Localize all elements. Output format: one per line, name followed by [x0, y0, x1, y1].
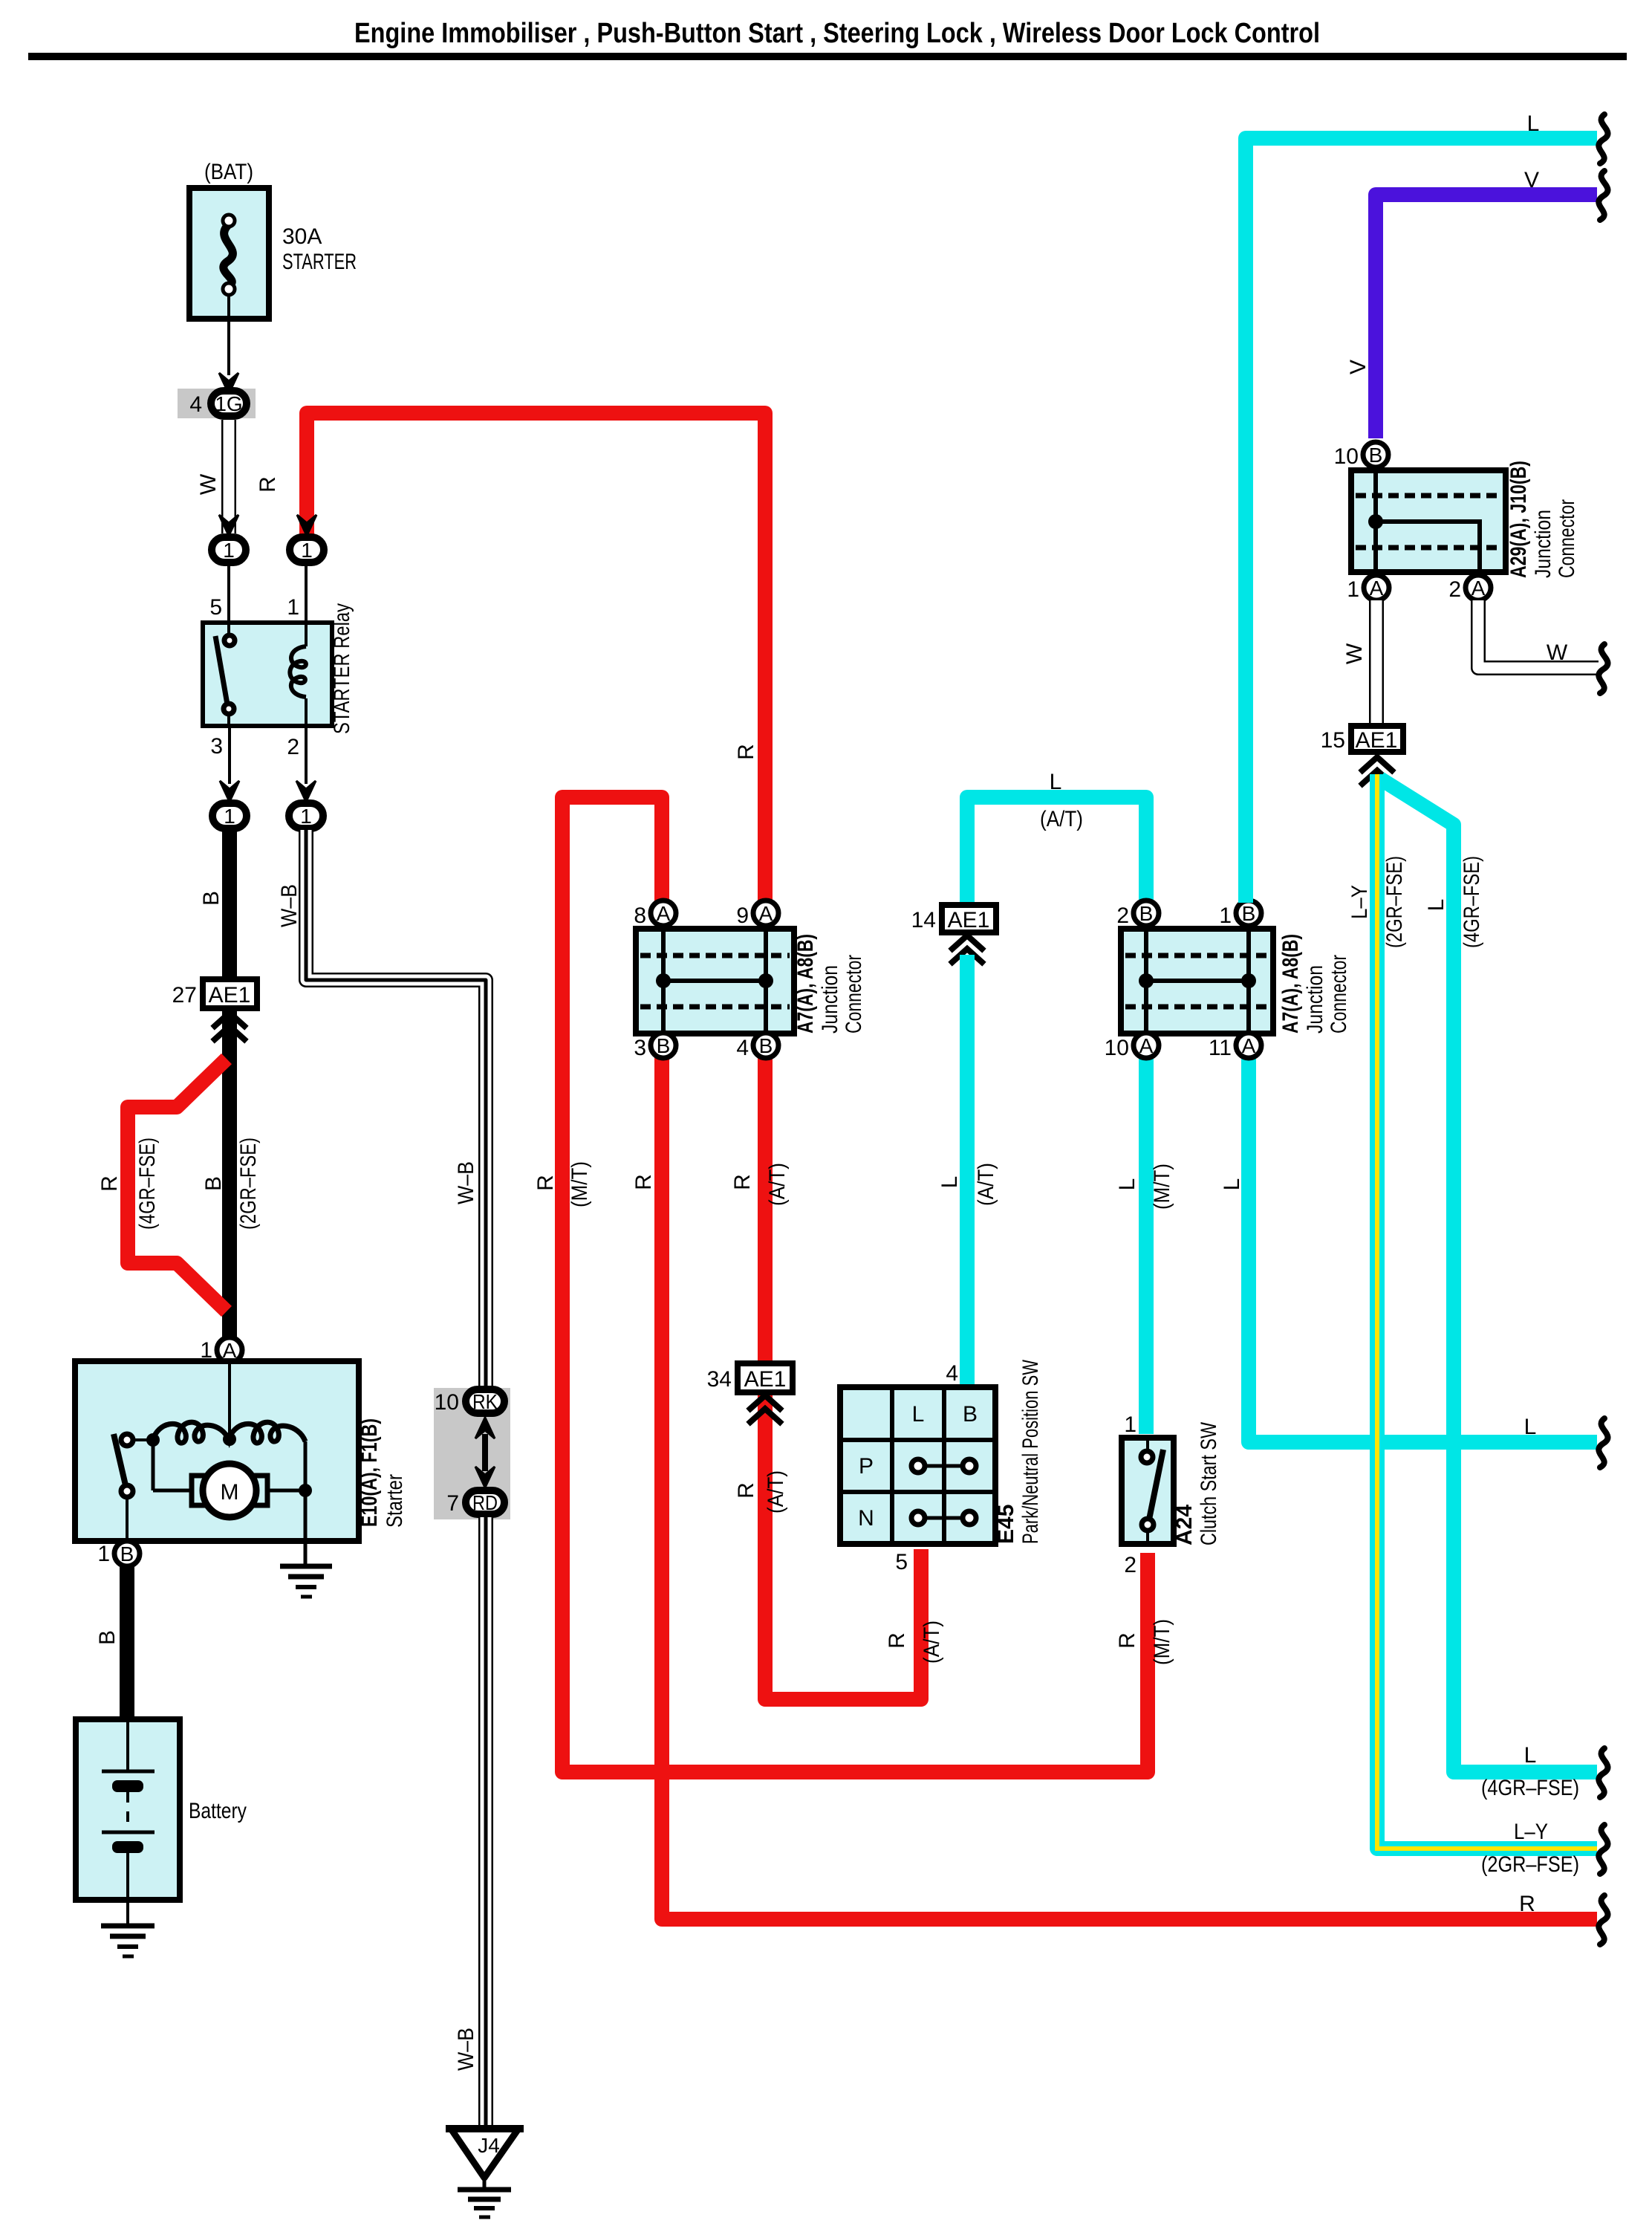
- svg-text:3: 3: [634, 1036, 646, 1060]
- svg-text:1: 1: [224, 805, 235, 828]
- wire B black relay to starter: [222, 830, 237, 1348]
- wire W-B relay pin2 to RK: [306, 830, 486, 1388]
- svg-text:5: 5: [209, 595, 222, 620]
- E45 cell labels: [858, 1402, 978, 1531]
- wire W A29 pin 2A to right break: [1478, 600, 1599, 668]
- label E10(A), F1(B) Starter: [357, 1418, 407, 1528]
- starter motor M: [153, 1440, 312, 1541]
- svg-text:1: 1: [1219, 903, 1232, 928]
- svg-text:RK: RK: [472, 1390, 498, 1413]
- wire RK to RD: [482, 1434, 488, 1471]
- svg-text:2: 2: [1448, 577, 1461, 602]
- svg-text:2: 2: [1116, 903, 1129, 928]
- svg-text:A7(A), A8(B): A7(A), A8(B): [793, 934, 818, 1034]
- svg-text:30A: 30A: [282, 224, 322, 249]
- wire L M/T: junction pin 10A to clutch SW pin 1: [1139, 1042, 1154, 1434]
- pin A circle starter: [217, 1337, 242, 1363]
- svg-text:10: 10: [1334, 444, 1359, 469]
- wire L-Y 2GR-FSE: 15 AE1 down to right break: [1377, 774, 1597, 1849]
- label R (4GR-FSE): [97, 1138, 160, 1230]
- svg-text:R: R: [1519, 1892, 1535, 1916]
- wire oval to relay pin1: [305, 564, 308, 623]
- break symbol L mid right: [1599, 1418, 1607, 1467]
- arrow into oval row2 right: [296, 781, 316, 802]
- svg-text:R: R: [734, 1482, 758, 1499]
- svg-text:(M/T): (M/T): [1150, 1164, 1174, 1210]
- svg-text:B: B: [120, 1542, 134, 1566]
- wire L A/T: 14 AE1 up over to junction pin 2B: [967, 797, 1146, 908]
- svg-text:(M/T): (M/T): [568, 1161, 592, 1207]
- svg-text:B: B: [963, 1402, 978, 1427]
- svg-text:4: 4: [736, 1036, 749, 1060]
- svg-text:2: 2: [1124, 1553, 1136, 1577]
- svg-text:P: P: [859, 1454, 874, 1479]
- connector 1G oval: [211, 391, 247, 416]
- svg-text:A: A: [759, 902, 773, 925]
- svg-text:1: 1: [97, 1542, 110, 1566]
- svg-text:RD: RD: [472, 1491, 498, 1514]
- connector 15 AE1: [1351, 726, 1403, 753]
- svg-text:W: W: [1547, 640, 1568, 665]
- svg-text:L: L: [937, 1176, 962, 1189]
- svg-text:AE1: AE1: [948, 908, 990, 932]
- svg-text:(2GR–FSE): (2GR–FSE): [1481, 1852, 1579, 1877]
- shield chevrons 14 AE1: [952, 935, 982, 962]
- label R (A/T) at E45 pin 5: [885, 1620, 944, 1664]
- svg-text:Clutch Start SW: Clutch Start SW: [1197, 1421, 1221, 1545]
- wire L A/T: 14 AE1 down to E45 pin 4: [960, 955, 975, 1391]
- svg-text:27: 27: [172, 983, 197, 1008]
- svg-text:M: M: [221, 1480, 239, 1505]
- break symbol L-Y bottom: [1599, 1825, 1607, 1874]
- connector oval 1 (row2 right): [289, 803, 323, 828]
- connector oval 1 (row1 right): [290, 537, 324, 562]
- svg-text:L: L: [1527, 111, 1540, 136]
- svg-text:11: 11: [1209, 1036, 1232, 1060]
- label L (4GR-FSE) bottom right: [1481, 1743, 1579, 1800]
- pin 11 A circle: [1236, 1033, 1261, 1058]
- wire R: junction pin 3B to right break: [662, 1042, 1597, 1919]
- label R (M/T) left: [533, 1161, 592, 1207]
- break symbol W right: [1599, 644, 1607, 693]
- svg-text:W: W: [1342, 643, 1367, 664]
- label A29(A), J10(B) Junction Connector: [1506, 461, 1579, 578]
- connector 34 AE1: [738, 1363, 793, 1392]
- svg-text:A: A: [1370, 577, 1384, 600]
- label L-Y (2GR-FSE) bottom right: [1481, 1820, 1579, 1877]
- svg-text:1: 1: [1347, 577, 1359, 602]
- svg-text:1: 1: [300, 805, 312, 828]
- svg-text:A: A: [1471, 577, 1486, 600]
- svg-text:4: 4: [946, 1361, 958, 1386]
- svg-text:R: R: [734, 744, 758, 760]
- E45 P row contacts: [911, 1459, 976, 1473]
- svg-text:R: R: [730, 1174, 755, 1190]
- svg-text:(A/T): (A/T): [764, 1470, 788, 1513]
- fuse 30A STARTER box: [189, 188, 269, 319]
- svg-text:15: 15: [1321, 728, 1345, 753]
- label L (A/T): [937, 1163, 998, 1206]
- svg-text:1: 1: [223, 539, 235, 562]
- wire fuse to 1G: [227, 295, 230, 375]
- connector 27 AE1: [203, 979, 257, 1008]
- svg-text:(A/T): (A/T): [765, 1163, 790, 1206]
- label B (2GR-FSE): [201, 1138, 261, 1230]
- svg-text:1: 1: [1124, 1412, 1136, 1437]
- pin 2 A circle A29: [1466, 575, 1491, 600]
- svg-text:B: B: [1139, 902, 1154, 925]
- wire V: right break to A29 pin 10B: [1376, 195, 1597, 438]
- svg-text:Starter: Starter: [383, 1474, 407, 1528]
- svg-text:(4GR–FSE): (4GR–FSE): [1481, 1776, 1579, 1800]
- A24 Clutch Start SW box: [1122, 1438, 1174, 1544]
- svg-text:Connector: Connector: [1555, 499, 1579, 578]
- arrow up into RK: [475, 1418, 495, 1438]
- svg-text:L: L: [1524, 1415, 1537, 1439]
- E45 N row contacts: [911, 1511, 976, 1525]
- svg-text:Connector: Connector: [1327, 955, 1351, 1034]
- wire L top: right break to junction pin 1B: [1246, 138, 1597, 903]
- pin 10 B circle A29: [1363, 442, 1388, 467]
- break symbol L 4GR bottom: [1599, 1748, 1607, 1797]
- svg-text:L–Y: L–Y: [1347, 885, 1372, 919]
- wire W 1G to oval1: [221, 420, 236, 533]
- svg-text:V: V: [1524, 168, 1539, 192]
- svg-text:V: V: [1346, 360, 1370, 374]
- svg-text:L: L: [1424, 899, 1448, 912]
- label A7(A), A8(B) Junction Connector left: [793, 934, 866, 1034]
- shield chevrons 15 AE1: [1362, 757, 1392, 784]
- svg-text:N: N: [858, 1506, 874, 1531]
- connector oval 1 (row2 left): [212, 803, 247, 828]
- label R (A/T) lower: [734, 1470, 788, 1513]
- wire relay pin2 down: [305, 726, 308, 784]
- svg-text:R: R: [256, 476, 280, 493]
- svg-text:AE1: AE1: [744, 1367, 787, 1392]
- connector oval 1 (row1 left): [212, 537, 246, 562]
- svg-text:B: B: [1369, 444, 1383, 467]
- connector 14 AE1: [942, 905, 996, 932]
- svg-text:(A/T): (A/T): [974, 1163, 998, 1206]
- starter ground: [280, 1566, 332, 1597]
- svg-text:B: B: [1242, 902, 1256, 925]
- svg-text:R: R: [885, 1632, 909, 1649]
- svg-text:B: B: [657, 1034, 671, 1057]
- svg-text:Junction: Junction: [1531, 510, 1555, 578]
- battery cells symbol: [102, 1721, 155, 1900]
- label L (4GR-FSE) rotated: [1424, 856, 1484, 948]
- label L (M/T): [1115, 1164, 1174, 1210]
- svg-text:L: L: [1115, 1178, 1139, 1191]
- svg-text:8: 8: [634, 903, 646, 928]
- wire R M/T: junction pin 8A to clutch SW pin 2: [562, 797, 1148, 1772]
- svg-text:4: 4: [189, 392, 202, 417]
- pin 1 B circle: [1236, 901, 1261, 926]
- svg-text:3: 3: [210, 734, 223, 759]
- junction connector A7(A) A8(B) right box: [1121, 929, 1273, 1034]
- shield chevrons 34 AE1: [750, 1395, 780, 1422]
- label R (M/T) at clutch SW pin 2: [1115, 1619, 1174, 1665]
- svg-text:Park/Neutral Position SW: Park/Neutral Position SW: [1018, 1359, 1043, 1544]
- svg-text:R: R: [533, 1175, 558, 1191]
- battery ground wire: [126, 1900, 129, 1925]
- svg-text:E10(A), F1(B): E10(A), F1(B): [357, 1418, 382, 1527]
- pin 8 A circle: [651, 901, 676, 926]
- shield chevrons 27 AE1: [215, 1013, 244, 1039]
- svg-text:B: B: [199, 891, 224, 906]
- relay switch: [215, 623, 235, 726]
- svg-text:R: R: [97, 1175, 122, 1192]
- svg-text:AE1: AE1: [209, 983, 251, 1008]
- svg-text:7: 7: [446, 1491, 459, 1516]
- wire R main top elbow: [307, 413, 765, 903]
- relay coil: [290, 623, 306, 726]
- label A24 Clutch Start SW: [1172, 1421, 1221, 1545]
- pin 2 B circle: [1134, 901, 1159, 926]
- E45 Park/Neutral Position SW box: [840, 1387, 995, 1544]
- svg-text:Junction: Junction: [1303, 965, 1327, 1034]
- starter field coil: [146, 1422, 305, 1490]
- label R (A/T) upper: [730, 1163, 790, 1206]
- starter switch: [114, 1434, 153, 1541]
- svg-text:10: 10: [1105, 1036, 1129, 1060]
- connector RD oval: [466, 1490, 504, 1514]
- title underline: [28, 53, 1627, 60]
- svg-text:A24: A24: [1172, 1505, 1197, 1545]
- svg-text:2: 2: [287, 735, 299, 759]
- svg-text:L: L: [1524, 1743, 1537, 1768]
- wire oval to relay pin5: [227, 564, 230, 623]
- STARTER Relay box: [203, 623, 332, 726]
- wire L 4GR-FSE: 15 AE1 down to right break: [1380, 779, 1597, 1772]
- fuse element symbol: [223, 215, 235, 295]
- wire R 4GR-FSE loop: [128, 1059, 227, 1311]
- pin 1 A circle A29: [1364, 575, 1389, 600]
- label 30A STARTER: [282, 224, 357, 274]
- wire W A29 pin 1A to 15 AE1: [1369, 600, 1384, 726]
- svg-text:Engine Immobiliser , Push-Butt: Engine Immobiliser , Push-Button Start ,…: [354, 18, 1320, 49]
- pin 3 B circle: [651, 1033, 676, 1058]
- junction connector A7(A) A8(B) left box: [636, 929, 794, 1034]
- svg-text:(A/T): (A/T): [1040, 807, 1083, 831]
- starter E10(A) F1(B) box: [75, 1361, 359, 1541]
- battery box: [76, 1719, 180, 1900]
- svg-text:(4GR–FSE): (4GR–FSE): [135, 1138, 160, 1230]
- svg-text:10: 10: [435, 1390, 459, 1415]
- pin 10 A circle: [1134, 1033, 1159, 1058]
- starter internal wire from pin A: [228, 1363, 231, 1439]
- svg-text:W–B: W–B: [454, 2028, 478, 2071]
- A24 switch: [1141, 1439, 1163, 1544]
- svg-text:L: L: [912, 1402, 925, 1427]
- battery ground: [101, 1926, 155, 1956]
- wire B black starter to battery: [120, 1566, 134, 1721]
- svg-text:E45: E45: [994, 1505, 1018, 1544]
- svg-text:Battery: Battery: [189, 1799, 247, 1823]
- break symbol V top: [1599, 171, 1607, 220]
- label L-Y (2GR-FSE) rotated: [1347, 856, 1407, 948]
- wire R A/T: junction pin 4B to E45 pin 5: [765, 1042, 921, 1699]
- ground J4 triangle: [446, 2129, 524, 2178]
- svg-text:A7(A), A8(B): A7(A), A8(B): [1278, 934, 1303, 1034]
- svg-text:J4: J4: [478, 2134, 500, 2157]
- arrow into oval row1 left: [219, 515, 238, 536]
- svg-text:(BAT): (BAT): [204, 160, 253, 184]
- arrow into 1G: [219, 373, 238, 394]
- svg-text:B: B: [201, 1176, 226, 1191]
- wire W-B RD to J4: [478, 1517, 493, 2128]
- J4 ground: [458, 2178, 511, 2217]
- svg-text:1: 1: [301, 539, 313, 562]
- arrow into oval row2 left: [220, 781, 239, 802]
- svg-text:W: W: [196, 473, 221, 495]
- svg-text:A29(A), J10(B): A29(A), J10(B): [1506, 461, 1531, 578]
- svg-text:A: A: [1242, 1034, 1256, 1057]
- junction connector A29(A) J10(B) box: [1351, 470, 1506, 572]
- pin 4 B circle: [753, 1033, 778, 1058]
- wire relay pin3 down: [228, 726, 231, 784]
- svg-text:R: R: [1115, 1632, 1139, 1649]
- break symbol L top: [1599, 114, 1607, 163]
- svg-text:L: L: [1050, 770, 1062, 794]
- svg-text:5: 5: [895, 1550, 908, 1574]
- svg-text:L: L: [1220, 1178, 1244, 1191]
- svg-text:(A/T): (A/T): [920, 1620, 944, 1664]
- svg-text:(4GR–FSE): (4GR–FSE): [1460, 856, 1484, 948]
- svg-text:(M/T): (M/T): [1150, 1619, 1174, 1665]
- svg-text:A: A: [657, 902, 671, 925]
- svg-text:STARTER: STARTER: [282, 250, 357, 274]
- svg-text:A: A: [1139, 1034, 1154, 1057]
- svg-text:B: B: [95, 1630, 120, 1645]
- connector grey band 4 1G: [178, 389, 256, 418]
- svg-text:STARTER Relay: STARTER Relay: [330, 603, 354, 734]
- connector RK oval: [466, 1389, 504, 1413]
- svg-text:14: 14: [911, 908, 936, 932]
- svg-text:Connector: Connector: [842, 955, 866, 1034]
- svg-text:W–B: W–B: [454, 1161, 478, 1204]
- svg-text:R: R: [631, 1174, 656, 1190]
- arrow into oval row1 right: [297, 515, 316, 536]
- svg-text:1G: 1G: [215, 392, 242, 415]
- svg-text:1: 1: [287, 595, 299, 620]
- arrow down into RD: [475, 1467, 495, 1487]
- svg-text:(2GR–FSE): (2GR–FSE): [1382, 856, 1407, 948]
- svg-text:34: 34: [707, 1367, 732, 1392]
- svg-text:W–B: W–B: [277, 884, 302, 927]
- starter ground wire: [304, 1541, 308, 1566]
- label E45 Park/Neutral Position SW: [994, 1359, 1043, 1544]
- svg-text:(2GR–FSE): (2GR–FSE): [236, 1138, 261, 1230]
- svg-text:B: B: [759, 1034, 773, 1057]
- label A7(A), A8(B) Junction Connector right: [1278, 934, 1351, 1034]
- pin 9 A circle: [753, 901, 778, 926]
- svg-text:L–Y: L–Y: [1514, 1820, 1548, 1844]
- break symbol R bottom right: [1599, 1895, 1607, 1944]
- wire L: junction pin 11A down to right break: [1249, 1042, 1597, 1442]
- connector grey band RK RD: [434, 1388, 510, 1519]
- pin B circle starter: [114, 1541, 140, 1566]
- svg-text:9: 9: [736, 903, 749, 928]
- svg-text:AE1: AE1: [1356, 728, 1398, 753]
- svg-text:Junction: Junction: [818, 965, 842, 1034]
